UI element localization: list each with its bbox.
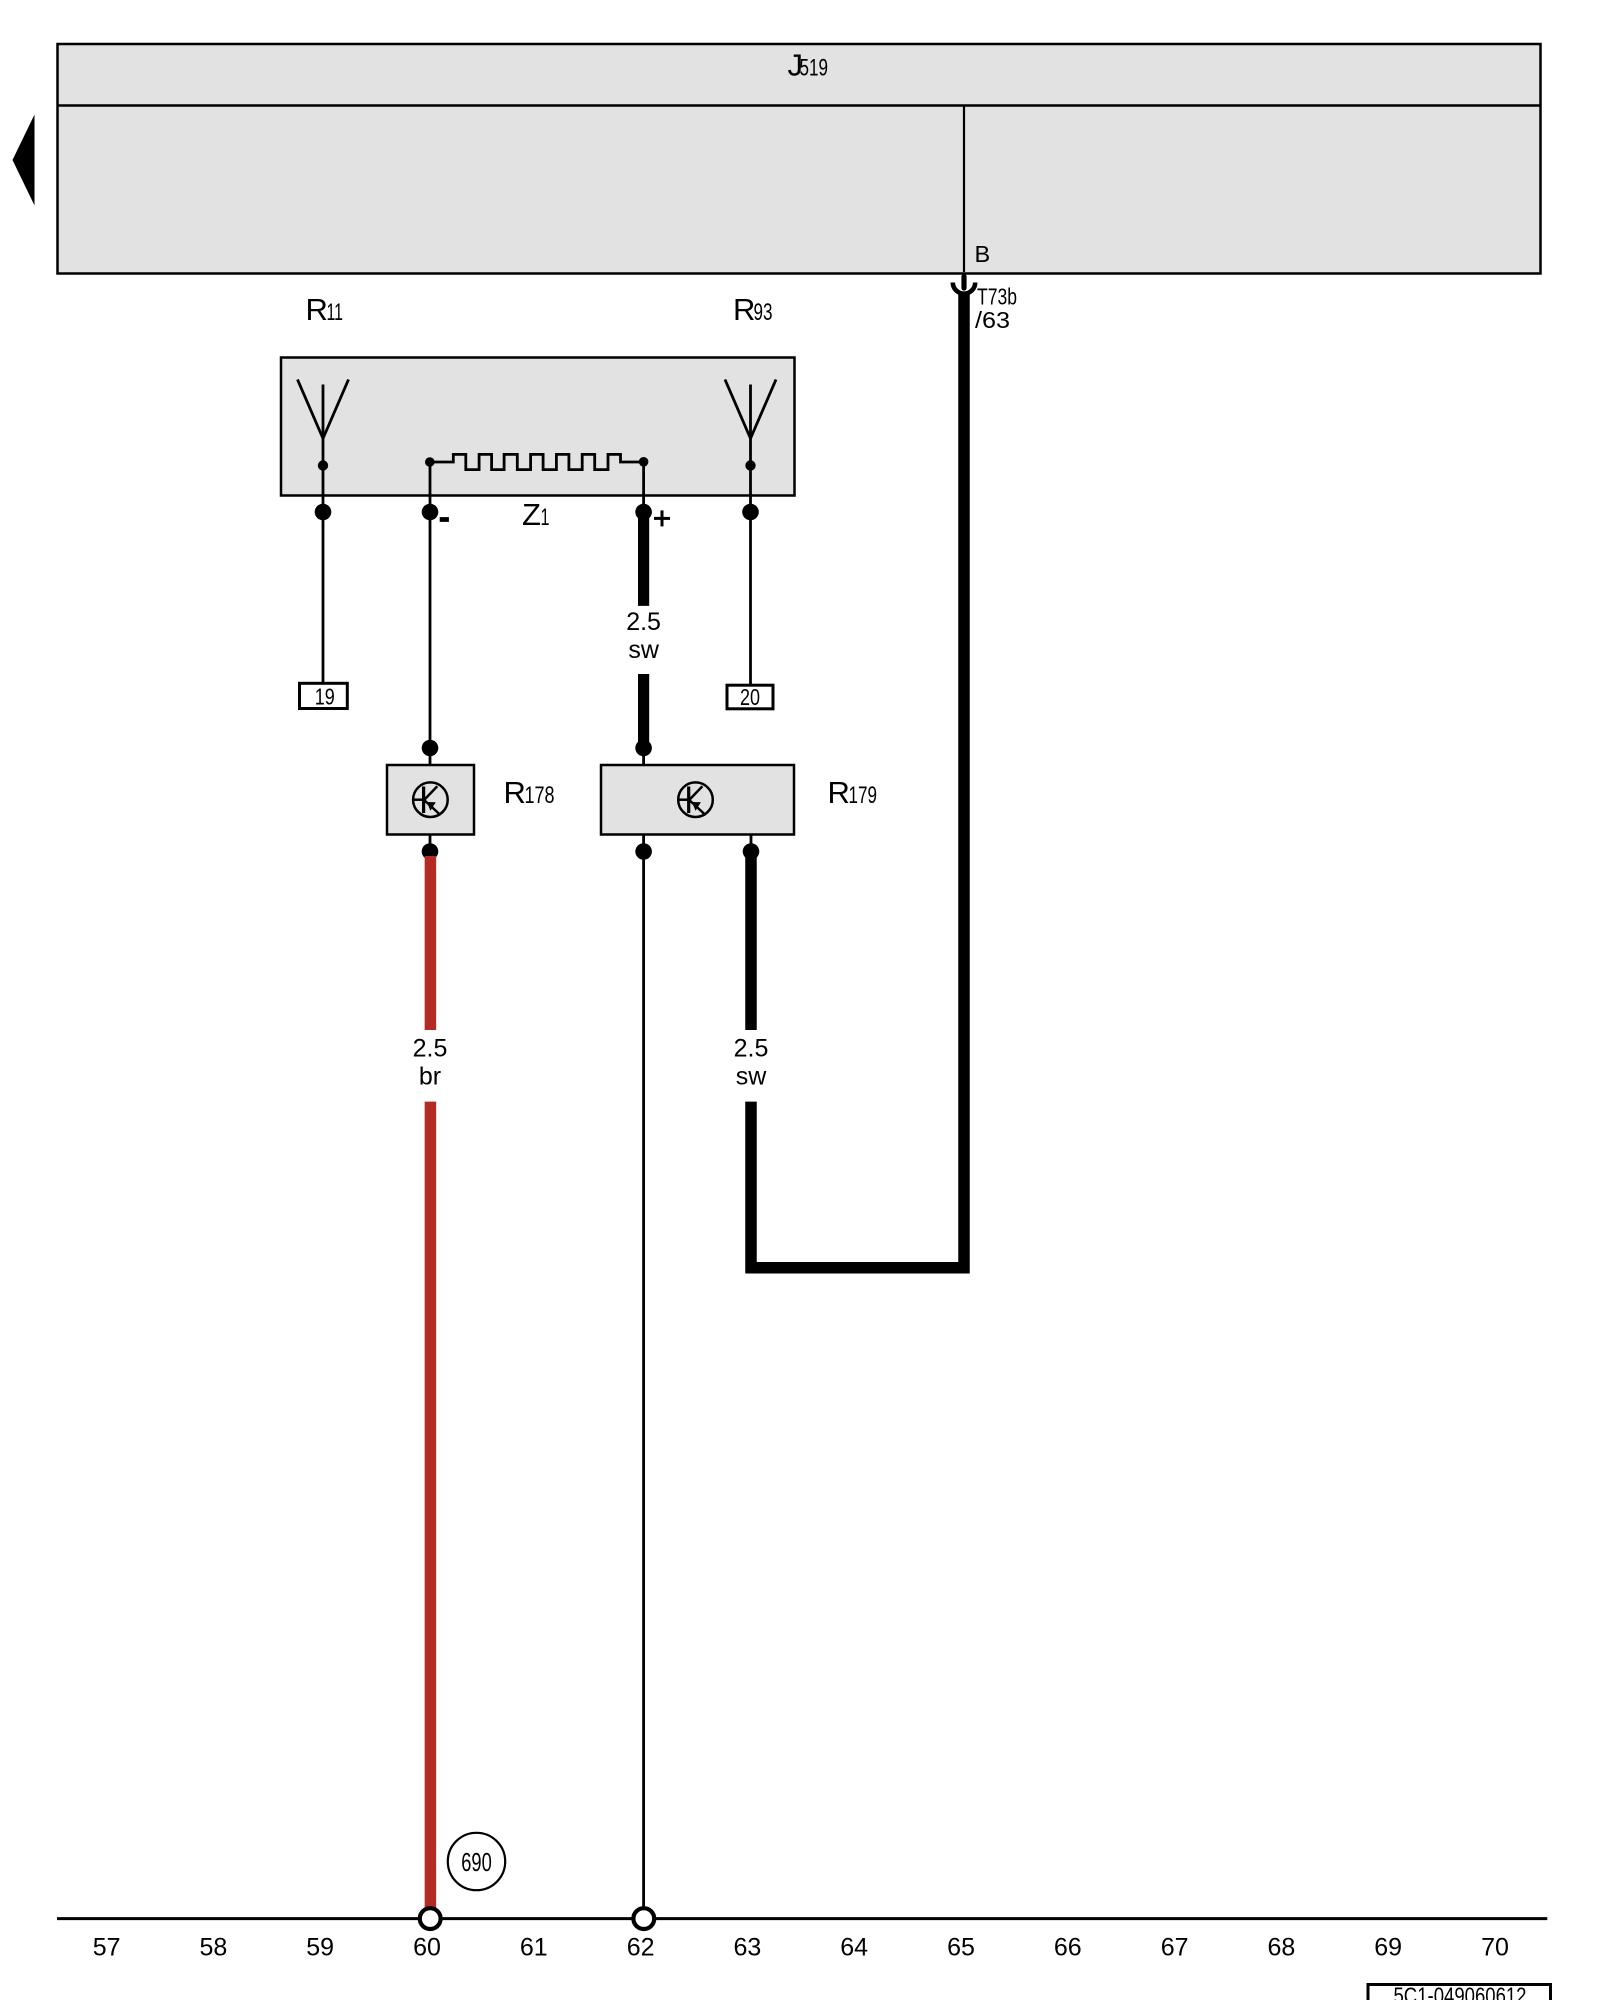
label minus [440, 517, 449, 522]
svg-text:/63: /63 [975, 307, 1010, 333]
svg-text:62: 62 [627, 1933, 655, 1961]
page-edge arrow (left) [13, 115, 35, 206]
svg-text:R: R [504, 775, 526, 810]
svg-text:R: R [733, 292, 755, 327]
connector T73b/63 cup [953, 283, 975, 294]
current track rail [57, 1917, 1547, 1920]
terminal dot pin 1 (x=323) [315, 504, 332, 521]
svg-text:67: 67 [1161, 1933, 1189, 1961]
svg-text:R: R [828, 775, 850, 810]
terminal dot pin 2 (x=750.5) [742, 504, 759, 521]
svg-text:1: 1 [541, 504, 550, 531]
antenna R11 symbol [298, 380, 349, 471]
wire antenna R11 to terminal 19 [322, 465, 325, 683]
svg-text:58: 58 [199, 1933, 227, 1961]
label plus [654, 517, 670, 520]
connector T73b/63 pin [961, 277, 966, 289]
wire thick black Z1 plus lower segment to node [638, 674, 649, 750]
wire stub R179 left to dot [642, 835, 645, 852]
svg-text:66: 66 [1054, 1933, 1082, 1961]
amplifier R178 box [387, 765, 474, 835]
svg-text:5C1-049060612: 5C1-049060612 [1394, 1983, 1527, 2000]
svg-text:61: 61 [520, 1933, 548, 1961]
control unit J519 box [58, 44, 1541, 274]
svg-text:70: 70 [1481, 1933, 1509, 1961]
terminal box 20 [727, 684, 773, 710]
node dot above R178 [422, 740, 439, 757]
svg-text:Z: Z [522, 497, 541, 532]
svg-text:63: 63 [733, 1933, 761, 1961]
svg-text:65: 65 [947, 1933, 975, 1961]
node B internal wire [963, 106, 965, 273]
antenna R93 symbol [725, 380, 776, 471]
svg-text:64: 64 [840, 1933, 868, 1961]
svg-text:60: 60 [413, 1933, 441, 1961]
wire brown 2.5 br lower segment to terminal 60 [425, 1102, 437, 1909]
svg-text:B: B [975, 241, 991, 267]
svg-text:93: 93 [754, 299, 773, 326]
drawing number box 5C1-049060612 [1368, 1983, 1551, 2000]
wire Z1 plus inside box [642, 462, 645, 512]
svg-text:57: 57 [93, 1933, 121, 1961]
terminal dot pin - (x=430) [422, 504, 439, 521]
wire thick black Z1 plus upper segment [638, 512, 649, 606]
wire thick black R179 to corner upper segment [745, 852, 757, 1031]
terminal box 19 [300, 683, 348, 709]
svg-text:20: 20 [740, 684, 760, 710]
terminal circle track 60 [420, 1908, 441, 1929]
svg-text:179: 179 [849, 782, 878, 809]
amplifier R179 box [601, 765, 794, 835]
wire brown 2.5 br upper segment [425, 856, 437, 1030]
svg-text:11: 11 [327, 299, 344, 326]
wire thick black from T73b pin B down and left to R179 [751, 294, 964, 1268]
wire stub R179 right to dot [750, 835, 753, 852]
node dot below R179 left [635, 843, 652, 860]
svg-text:59: 59 [306, 1933, 334, 1961]
node dot below R178 [422, 843, 439, 860]
heater element Z1 square-wave resistor [425, 454, 648, 469]
svg-text:690: 690 [461, 1847, 492, 1877]
svg-text:2.5: 2.5 [626, 608, 661, 636]
svg-text:R: R [306, 292, 328, 327]
node dot above R179 [635, 740, 652, 757]
svg-text:519: 519 [800, 55, 829, 82]
svg-text:69: 69 [1374, 1933, 1402, 1961]
svg-text:178: 178 [525, 782, 555, 809]
wire stub R178 to dot [429, 835, 432, 852]
svg-text:sw: sw [628, 636, 660, 664]
svg-text:T73b: T73b [977, 284, 1017, 310]
svg-text:br: br [419, 1063, 441, 1091]
terminal dot pin + (x=643.6) [635, 504, 652, 521]
svg-text:2.5: 2.5 [734, 1035, 769, 1063]
terminal circle track 62 [633, 1908, 654, 1929]
svg-text:19: 19 [315, 683, 335, 709]
wire Z1 minus to R178 [429, 462, 432, 765]
ground node 690 [448, 1833, 505, 1890]
svg-text:2.5: 2.5 [413, 1035, 448, 1063]
wire stub node to R179 top [642, 748, 645, 765]
antenna module box (R11 / R93 / Z1) [281, 358, 795, 496]
svg-text:sw: sw [736, 1063, 768, 1091]
wire antenna R93 to terminal 20 [749, 465, 752, 685]
svg-text:68: 68 [1267, 1933, 1295, 1961]
node dot below R179 right [743, 843, 760, 860]
wire thin black R179 left to terminal 62 [642, 852, 645, 1909]
